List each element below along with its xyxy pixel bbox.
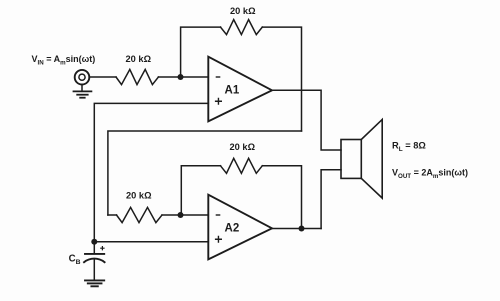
ground at source stem (81, 85, 83, 92)
capacitor CB bottom lead (93, 260, 95, 281)
wire A2 feedback loop right vertical (262, 166, 301, 229)
svg-text:VOUT = 2Amsin(ωt): VOUT = 2Amsin(ωt) (392, 167, 468, 180)
capacitor CB lead (93, 242, 95, 254)
wire A2 feedback loop left vertical (181, 166, 220, 215)
wire A2 non-inverting input to bias node (94, 241, 208, 243)
ground at source bar2 (77, 94, 88, 96)
wire A2 output (272, 228, 321, 230)
wire top feedback loop left vertical (181, 27, 221, 77)
resistor R4 20k (A2 feedback) (221, 158, 263, 173)
node bias junction dot (91, 239, 97, 245)
svg-text:VIN = Amsin(ωt): VIN = Amsin(ωt) (32, 54, 96, 67)
capacitor CB top plate (85, 253, 104, 255)
svg-text:RL = 8Ω: RL = 8Ω (392, 141, 426, 154)
resistor R3 20k (input to A2) (117, 207, 163, 222)
svg-text:20 kΩ: 20 kΩ (126, 54, 152, 64)
wire A1 non-inverting input down to bias node (94, 103, 208, 241)
speaker cone (361, 120, 382, 199)
wire top feedback loop right vertical (262, 27, 301, 131)
resistor R2 20k (A1 feedback) (221, 20, 263, 35)
source VIN inner circle (79, 74, 85, 80)
ground at CB bar2 (88, 282, 102, 284)
wire mid horizontal A1 out to A2 input chain (108, 131, 302, 215)
op-amp A2 triangle (208, 195, 272, 260)
svg-text:A2: A2 (225, 222, 240, 234)
source VIN outer circle (75, 70, 90, 85)
op-amp A2 minus sign (216, 214, 219, 216)
wire R3 to A2 inverting input (162, 214, 208, 216)
ground at CB bar1 (85, 279, 104, 281)
ground at source bar3 (80, 97, 85, 99)
ground at CB bar3 (91, 285, 97, 287)
op-amp A1 minus sign (216, 76, 219, 78)
speaker driver rectangle (341, 140, 361, 179)
node A1 inverting input junction dot (178, 74, 184, 80)
op-amp A1 plus sign (216, 98, 222, 104)
svg-text:CB: CB (69, 254, 81, 267)
capacitor CB curved bottom plate (84, 259, 105, 263)
resistor R1 20k (input to A1) (116, 69, 158, 84)
svg-text:20 kΩ: 20 kΩ (126, 191, 152, 201)
svg-text:A1: A1 (225, 84, 240, 96)
capacitor CB plus polarity mark (101, 247, 104, 250)
op-amp A1 triangle (208, 57, 272, 122)
op-amp A2 plus sign (216, 236, 222, 242)
wire A1 output to speaker top (272, 90, 341, 150)
ground at source bar1 (74, 90, 92, 92)
svg-text:20 kΩ: 20 kΩ (230, 142, 256, 152)
wire into R3 (108, 214, 117, 216)
node A2 inverting input junction dot (178, 212, 184, 218)
node A2 output junction dot (299, 226, 305, 232)
wire speaker bottom to A2 output (321, 170, 341, 229)
wire R1 to A1 inverting input (158, 76, 208, 78)
svg-text:20 kΩ: 20 kΩ (230, 6, 256, 16)
wire source to R1 (89, 76, 116, 78)
